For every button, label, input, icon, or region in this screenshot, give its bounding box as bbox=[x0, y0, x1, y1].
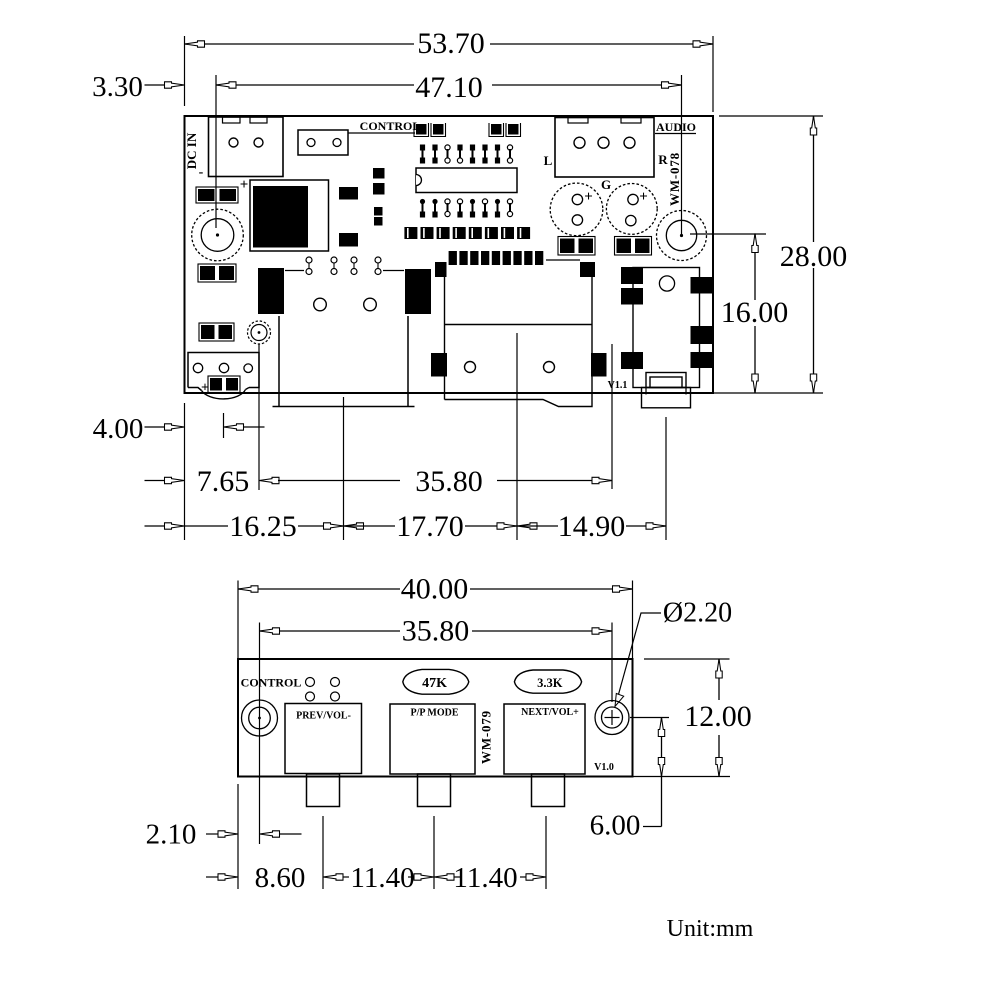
SD card slot left edge bbox=[444, 263, 446, 400]
svg-text:11.40: 11.40 bbox=[453, 862, 517, 894]
push button PREV/VOL- bbox=[285, 704, 362, 774]
battery connector bump (below board) bbox=[202, 390, 246, 399]
svg-text:53.70: 53.70 bbox=[417, 27, 485, 60]
dimension 16.25 arrows and line bbox=[145, 525, 165, 527]
audio hole L bbox=[574, 137, 585, 148]
smd pad pair left edge 2 bbox=[198, 264, 236, 282]
extension line x=666 (14.90 right, USB center) bbox=[665, 417, 667, 540]
dimension 11.40 second bbox=[454, 876, 460, 878]
voltage regulator outline bbox=[250, 180, 329, 251]
dimension 12.00 line and arrows bbox=[718, 659, 720, 700]
audio connector tab 1 bbox=[568, 118, 588, 124]
extension line from small stud x=259 bbox=[258, 344, 260, 490]
test point link line left bbox=[285, 270, 304, 272]
dimension 47.10 extension line right (to right stud center) bbox=[681, 75, 683, 236]
DC connector pin hole 2 bbox=[254, 138, 263, 147]
smd pad pair near CONTROL 1 bbox=[414, 123, 429, 137]
phone jack bottom cap bbox=[273, 406, 415, 408]
svg-text:WM-079: WM-079 bbox=[478, 710, 493, 764]
cap pads pair 1 bbox=[558, 237, 595, 256]
dimension 47.10 extension line left (to left stud center) bbox=[215, 75, 217, 228]
electrolytic cap pad left (black) bbox=[258, 268, 284, 314]
svg-text:DC IN: DC IN bbox=[184, 132, 199, 169]
audio connector body bbox=[555, 118, 654, 178]
SD connector pin row bbox=[449, 251, 457, 265]
panel hole c bbox=[306, 692, 315, 701]
dimension 53.70 extension line left bbox=[184, 36, 186, 106]
svg-text:3.3K: 3.3K bbox=[537, 676, 563, 690]
6.00 label connector bbox=[643, 826, 662, 828]
svg-text:14.90: 14.90 bbox=[558, 510, 626, 543]
leader line for diameter 2.20 bbox=[618, 613, 662, 698]
push button P/P MODE bbox=[390, 704, 475, 774]
IC U1 notch bbox=[416, 175, 421, 186]
PCB board outline (top view) bbox=[185, 116, 714, 393]
USB pad right 2 bbox=[691, 326, 713, 344]
smd resistor pad B bbox=[339, 233, 358, 247]
svg-text:L: L bbox=[544, 153, 553, 168]
panel hole a bbox=[306, 678, 315, 687]
ext line stem1 center bbox=[322, 816, 324, 889]
svg-text:35.80: 35.80 bbox=[402, 615, 470, 648]
battery connector pads bbox=[208, 376, 240, 393]
dimension 16.00 extension (from right stud center) bbox=[690, 233, 766, 235]
dim 12.00 extension bottom (panel bottom extended) bbox=[633, 776, 731, 778]
svg-text:3.30: 3.30 bbox=[92, 71, 143, 103]
svg-text:12.00: 12.00 bbox=[684, 700, 752, 733]
dim 35.80 extension left (left stud) bbox=[259, 623, 261, 845]
svg-text:11.40: 11.40 bbox=[350, 862, 414, 894]
USB pad left 2 bbox=[621, 288, 643, 305]
left mounting stud (3.30/47.10 datum) bbox=[192, 209, 244, 261]
svg-text:G: G bbox=[601, 177, 611, 192]
panel hole d bbox=[331, 692, 340, 701]
smd pad mid 1 bbox=[373, 168, 385, 179]
panel hole b bbox=[331, 678, 340, 687]
SD card slot front edge bbox=[445, 324, 593, 326]
svg-text:8.60: 8.60 bbox=[255, 862, 306, 894]
resistor label oval 47K bbox=[403, 669, 469, 694]
dimension 53.70 extension line right bbox=[712, 36, 714, 112]
svg-text:-: - bbox=[199, 165, 204, 180]
push button NEXT/VOL+ bbox=[504, 704, 585, 774]
ext line stem2 center bbox=[433, 816, 435, 889]
svg-text:6.00: 6.00 bbox=[590, 810, 641, 842]
DC connector tab 2 bbox=[250, 117, 267, 123]
extension line x=612 (35.80 right, from stud) bbox=[611, 344, 613, 489]
dimension 35.80 line and arrows bbox=[260, 630, 401, 632]
extension line 4.00 tick bbox=[223, 413, 225, 438]
extension line x=517 (17.70/14.90) from SD center bbox=[516, 333, 518, 540]
svg-text:+: + bbox=[584, 189, 593, 205]
mini-USB connector outline bbox=[633, 268, 700, 388]
jack mounting hole 1 bbox=[314, 298, 327, 311]
left stud (bottom view) bbox=[242, 700, 278, 736]
IC U1 pin row top bbox=[422, 149, 424, 158]
dimension 4.00 arrows bbox=[145, 426, 165, 428]
test point row bbox=[306, 257, 312, 263]
electrolytic capacitor C2 bbox=[606, 184, 657, 235]
smd resistor pad A bbox=[339, 187, 358, 200]
dimension 7.65 arrows bbox=[145, 480, 165, 482]
svg-text:47K: 47K bbox=[422, 676, 447, 691]
dimension 16.00 line and arrows bbox=[754, 234, 756, 301]
smd pad pair near CONTROL 2 bbox=[489, 123, 504, 137]
jack mounting hole 2 bbox=[364, 298, 377, 311]
SD anchor pad left bbox=[435, 262, 447, 277]
svg-text:CONTROL: CONTROL bbox=[360, 119, 421, 133]
svg-text:Ø2.20: Ø2.20 bbox=[663, 598, 732, 629]
svg-text:V1.0: V1.0 bbox=[594, 762, 614, 773]
button stem 1 bbox=[307, 774, 340, 807]
smd pad pair left edge 3 bbox=[199, 323, 234, 341]
USB hole bbox=[659, 276, 674, 291]
svg-text:40.00: 40.00 bbox=[401, 573, 469, 606]
battery connector hole 2 bbox=[219, 363, 228, 372]
SD area hole 1 bbox=[465, 362, 476, 373]
audio hole G bbox=[598, 137, 609, 148]
SD anchor pad right bbox=[580, 262, 595, 277]
svg-text:NEXT/VOL+: NEXT/VOL+ bbox=[521, 707, 579, 718]
jumper header box bbox=[298, 130, 348, 155]
DC power connector body bbox=[209, 117, 284, 177]
USB plug body below board bbox=[642, 388, 691, 408]
USB shell inner bbox=[650, 377, 682, 388]
svg-text:16.00: 16.00 bbox=[721, 296, 789, 329]
stud reference line bbox=[630, 717, 669, 719]
dimension 17.70 arrows and line bbox=[344, 523, 364, 529]
dimension 47.10 line and arrows bbox=[216, 84, 414, 86]
dim 40.00 extension right bbox=[632, 581, 634, 660]
dim 40.00 extension left bbox=[237, 581, 239, 660]
svg-text:V1.1: V1.1 bbox=[608, 380, 628, 391]
audio hole R bbox=[624, 137, 635, 148]
USB pad right 3 bbox=[691, 352, 713, 368]
CONTROL leader line bbox=[348, 132, 415, 134]
button stem 3 bbox=[532, 774, 565, 807]
svg-text:35.80: 35.80 bbox=[415, 465, 483, 498]
small stud left (7.65 datum) bbox=[248, 321, 271, 344]
USB pad left 3 bbox=[621, 352, 643, 369]
right stud (bottom view) with cross bbox=[595, 701, 629, 735]
svg-text:Unit:mm: Unit:mm bbox=[667, 916, 754, 942]
jumper hole 2 bbox=[333, 139, 341, 147]
battery connector hole 3 bbox=[244, 364, 253, 373]
svg-text:17.70: 17.70 bbox=[396, 510, 464, 543]
dimension 40.00 line and arrows bbox=[238, 588, 400, 590]
cap pads pair 2 bbox=[615, 237, 652, 256]
svg-text:7.65: 7.65 bbox=[197, 465, 250, 498]
smd pad mid 2 bbox=[373, 183, 385, 195]
svg-text:16.25: 16.25 bbox=[229, 510, 297, 543]
SD bottom pad right bbox=[591, 353, 607, 377]
SD card slot right edge bbox=[591, 277, 593, 353]
DC connector tab 1 bbox=[223, 117, 241, 123]
svg-text:+: + bbox=[240, 177, 249, 193]
IC U1 pin row bottom bbox=[422, 203, 424, 212]
front panel outline (bottom view) bbox=[238, 659, 633, 777]
electrolytic capacitor C1 bbox=[550, 183, 603, 236]
SD area hole 2 bbox=[544, 362, 555, 373]
ext line stem3 center bbox=[545, 816, 547, 889]
phone jack body left side bbox=[278, 316, 280, 407]
svg-text:47.10: 47.10 bbox=[415, 71, 483, 104]
link line pad row to right anchor bbox=[546, 259, 580, 261]
battery connector body bbox=[188, 353, 259, 391]
electrolytic cap pad right (black) bbox=[405, 269, 431, 314]
svg-text:WM-078: WM-078 bbox=[667, 152, 682, 206]
IC U1 body bbox=[416, 168, 517, 193]
dim 12.00 extension top bbox=[644, 658, 730, 660]
dimension 35.80 line and arrow bbox=[278, 480, 400, 482]
battery connector hole 1 bbox=[193, 363, 202, 372]
dimension 8.60 bbox=[206, 876, 218, 878]
smd pad pair left edge 1 bbox=[196, 187, 238, 203]
svg-text:AUDIO: AUDIO bbox=[656, 120, 696, 134]
AUDIO underline bbox=[655, 133, 696, 135]
svg-text:PREV/VOL-: PREV/VOL- bbox=[296, 711, 351, 722]
jumper hole 1 bbox=[307, 139, 315, 147]
resistor label oval 3.3K bbox=[514, 670, 581, 693]
dimension 28.00 extension bottom bbox=[708, 392, 823, 394]
svg-text:CONTROL: CONTROL bbox=[241, 676, 302, 690]
smd pad row below IC (pads with mask slit) bbox=[404, 227, 417, 239]
dimension 28.00 line and arrows bbox=[813, 116, 815, 242]
dimension 3.30 leader arrow bbox=[145, 84, 165, 86]
smd pad mid 4 bbox=[374, 217, 383, 226]
USB shell outer bbox=[646, 373, 686, 388]
SD bottom pad left bbox=[431, 353, 447, 377]
svg-text:28.00: 28.00 bbox=[780, 240, 848, 273]
USB pad left 1 bbox=[621, 267, 643, 284]
dimension 53.70 line and arrows bbox=[185, 43, 415, 45]
dimension 28.00 extension top bbox=[719, 115, 823, 117]
dimension 14.90 arrows and line bbox=[517, 523, 537, 529]
svg-text:4.00: 4.00 bbox=[93, 413, 144, 445]
right mounting stud (47.10 datum) bbox=[657, 211, 707, 261]
svg-text:2.10: 2.10 bbox=[146, 819, 197, 851]
svg-text:P/P MODE: P/P MODE bbox=[410, 708, 458, 719]
extension line board left edge down bbox=[184, 403, 186, 540]
dim 35.80 extension right (right stud) bbox=[611, 623, 613, 703]
ext line panel-left below bbox=[237, 784, 239, 889]
DC connector pin hole 1 bbox=[229, 138, 238, 147]
extension line x=343.5 (16.25/17.70) bbox=[343, 397, 345, 540]
button stem 2 bbox=[418, 774, 451, 807]
svg-text:+: + bbox=[639, 189, 648, 205]
smd pad mid 3 bbox=[374, 207, 383, 216]
USB pad right 1 bbox=[691, 277, 713, 294]
SD card protruding outline bbox=[445, 393, 593, 407]
phone jack body right side bbox=[407, 316, 409, 407]
voltage regulator body (black) bbox=[253, 186, 308, 248]
audio connector tab 2 bbox=[621, 118, 641, 124]
test point link line right bbox=[383, 270, 404, 272]
dimension 6.00 line and arrows bbox=[661, 718, 663, 827]
